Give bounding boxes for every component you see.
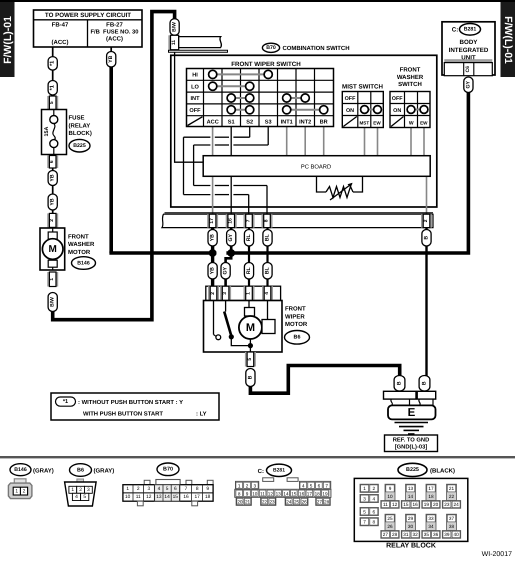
wire mist EW to PC board — [377, 128, 379, 156]
svg-text:37: 37 — [449, 516, 455, 521]
svg-text:B70: B70 — [266, 45, 276, 51]
page label bar left F/W(L)-01 — [0, 2, 15, 77]
svg-text:(GRAY): (GRAY) — [33, 467, 54, 474]
contact LO: ACC to S2 — [209, 82, 254, 90]
pin 16 (combination switch) — [226, 214, 237, 227]
wire label B (ground right) — [419, 376, 430, 392]
front wiper motor connector row — [206, 286, 281, 300]
svg-text:*1: *1 — [50, 61, 56, 66]
svg-text:27: 27 — [383, 532, 389, 537]
svg-text:16: 16 — [228, 218, 234, 224]
legend oval B6 — [70, 464, 92, 477]
wire label *1 — [48, 81, 57, 96]
svg-text:15A: 15A — [44, 126, 50, 136]
svg-text:11: 11 — [171, 40, 177, 45]
separator line — [0, 456, 515, 458]
svg-text:MST: MST — [359, 121, 369, 126]
svg-text:BL: BL — [265, 233, 271, 241]
svg-text:FUSE: FUSE — [69, 115, 85, 122]
svg-text:(ACC): (ACC) — [106, 36, 123, 43]
wire label B (ground left) — [394, 376, 405, 392]
svg-text:EW: EW — [420, 121, 428, 126]
wire label RL (pin7) — [244, 230, 253, 247]
svg-text:5: 5 — [310, 483, 313, 488]
pin 2 (front washer motor) — [47, 213, 58, 227]
contact mist ON: MST to EW — [361, 106, 382, 114]
svg-text:33: 33 — [428, 516, 434, 521]
wire washer EW to PC board — [423, 128, 425, 156]
svg-text:4: 4 — [75, 494, 78, 500]
svg-text:B/W: B/W — [172, 22, 178, 32]
svg-text:9: 9 — [246, 491, 249, 496]
pin 2 (front wiper motor) — [208, 286, 219, 300]
wire S2 column to pin 7 (routed left around PC board) — [184, 127, 250, 216]
ground symbol — [395, 423, 429, 435]
pin 11 (combination switch) — [168, 35, 178, 49]
legend connector B6 (5-pin trapezoid) — [65, 479, 97, 506]
wire FB-47 to fuse to front washer motor (vertical chain) — [52, 47, 54, 229]
wire BR column to PC board — [323, 127, 325, 156]
svg-text:WASHER: WASHER — [68, 241, 95, 248]
svg-text:8: 8 — [264, 219, 270, 222]
svg-text:16: 16 — [412, 502, 418, 507]
svg-text:31: 31 — [403, 532, 409, 537]
svg-text:C:: C: — [258, 468, 264, 475]
svg-text:11: 11 — [260, 491, 265, 496]
svg-text:WITH PUSH BUTTON START: WITH PUSH BUTTON START — [83, 410, 163, 417]
label FUSE (RELAY BLOCK) — [69, 115, 92, 138]
svg-text:OFF: OFF — [345, 96, 356, 102]
svg-text:EW: EW — [373, 121, 381, 126]
front washer switch table — [390, 67, 430, 128]
svg-text:RELAY BLOCK: RELAY BLOCK — [386, 543, 436, 550]
top border line — [0, 0, 515, 2]
svg-text:3: 3 — [363, 496, 366, 501]
label FRONT WASHER MOTOR — [68, 233, 95, 256]
wire label GY (pin16) — [227, 230, 236, 247]
svg-text:2: 2 — [137, 486, 140, 492]
svg-text:26: 26 — [387, 524, 393, 529]
svg-text:WIPER: WIPER — [285, 313, 305, 320]
svg-text:18: 18 — [315, 491, 321, 496]
svg-text:23: 23 — [444, 502, 450, 507]
svg-text:FRONT: FRONT — [285, 306, 306, 313]
wire label RL (motor pin1) — [244, 263, 253, 280]
legend connector B146 (2-pin) — [8, 479, 32, 499]
combination switch box B70 — [171, 55, 437, 207]
svg-text:RL: RL — [246, 233, 252, 241]
contact HI: ACC to S3 — [209, 70, 273, 78]
svg-text:1: 1 — [238, 483, 241, 488]
diagonal in corner cell — [188, 117, 203, 126]
svg-text:25: 25 — [387, 516, 393, 521]
svg-text:ON: ON — [393, 108, 401, 114]
wire label B/W (comb switch pin 11) — [170, 19, 179, 36]
svg-text:FRONT: FRONT — [400, 67, 421, 74]
wire BL pin8 to wiper motor pin 4 — [266, 227, 268, 287]
connector oval B225 — [69, 139, 90, 152]
svg-text:E: E — [408, 407, 416, 419]
svg-text:12: 12 — [392, 502, 398, 507]
legend connector B281 (28-pin) — [235, 478, 331, 506]
svg-text:HI: HI — [192, 73, 198, 79]
wire label B/W (washer motor) — [48, 293, 57, 312]
svg-text:15: 15 — [291, 491, 297, 496]
svg-text:B: B — [397, 381, 403, 385]
svg-text:BL: BL — [265, 266, 271, 274]
svg-text:: WITHOUT PUSH BUTTON START :: : WITHOUT PUSH BUTTON START : Y — [78, 399, 183, 406]
svg-text:21: 21 — [245, 499, 251, 504]
svg-text:18: 18 — [428, 494, 434, 499]
svg-text:6: 6 — [174, 486, 177, 492]
svg-text:26: 26 — [302, 499, 308, 504]
svg-text:11: 11 — [136, 494, 141, 500]
svg-text:29: 29 — [408, 516, 414, 521]
svg-text:10: 10 — [387, 494, 393, 499]
wire label B (wiper motor ground) — [246, 369, 255, 387]
svg-text:FB-27: FB-27 — [106, 22, 123, 29]
svg-text:4: 4 — [302, 483, 305, 488]
svg-text:GY: GY — [465, 80, 471, 88]
svg-text:7: 7 — [246, 219, 252, 222]
pin 17 (combination switch) — [207, 214, 218, 227]
svg-text:MOTOR: MOTOR — [285, 321, 308, 328]
svg-text:14: 14 — [408, 494, 414, 499]
legend connector B70 (18-pin) — [123, 480, 213, 506]
svg-text:ON: ON — [346, 108, 354, 114]
svg-text:7: 7 — [363, 520, 366, 525]
wire YB horizontal to junction (net YB) — [109, 251, 216, 255]
page label bar right F/W(L)-01 — [501, 2, 515, 77]
svg-text:17: 17 — [428, 486, 434, 491]
svg-text:14: 14 — [164, 494, 170, 500]
svg-text:21: 21 — [449, 486, 455, 491]
svg-text:B225: B225 — [73, 143, 86, 149]
contact OFF: S1 to S2 — [227, 106, 254, 114]
svg-text:OFF: OFF — [189, 108, 201, 114]
svg-text:B: B — [422, 381, 428, 385]
svg-text:F/W(L)-01: F/W(L)-01 — [502, 16, 514, 64]
svg-text:2: 2 — [246, 483, 249, 488]
svg-text:2: 2 — [49, 219, 55, 222]
pin 2 (combination switch) — [421, 214, 432, 227]
svg-text:F/B FUSE NO. 30: F/B FUSE NO. 30 — [91, 29, 139, 36]
junction dot YB net — [209, 249, 217, 257]
svg-text:15: 15 — [403, 502, 409, 507]
wire YB pin17 to wiper motor pin 2 — [211, 227, 214, 287]
svg-text:1: 1 — [15, 489, 18, 495]
svg-text:INTEGRATED: INTEGRATED — [449, 47, 489, 54]
wire label GY (motor pin3) — [221, 263, 230, 280]
body integrated unit connector row with pin C6 — [444, 59, 492, 75]
pin 7 (combination switch) — [244, 214, 255, 227]
svg-text:1: 1 — [363, 486, 366, 491]
wire label YB (fuse out) — [48, 171, 57, 186]
fuse 15A (relay block B225) — [42, 110, 67, 155]
svg-text:18: 18 — [205, 494, 211, 500]
svg-text:OFF: OFF — [392, 96, 403, 102]
svg-text:WI-20017: WI-20017 — [482, 551, 512, 558]
svg-text:[GND(L)-03]: [GND(L)-03] — [395, 444, 428, 451]
wire B pin2 down to ground — [425, 227, 427, 376]
svg-text:28: 28 — [324, 499, 330, 504]
ground terminal blocks — [384, 391, 436, 405]
svg-text:BODY: BODY — [460, 39, 479, 46]
wire GY pin16 to wiper motor pin 3 (jog) — [226, 227, 232, 287]
svg-text:B6: B6 — [294, 335, 301, 341]
svg-text:RL: RL — [246, 266, 252, 274]
svg-text:34: 34 — [428, 524, 434, 529]
svg-text:C:: C: — [452, 27, 459, 34]
svg-text:PC BOARD: PC BOARD — [301, 163, 331, 170]
legend oval B281 — [267, 464, 292, 476]
wire INT1 column to PC board — [286, 127, 288, 156]
svg-text:2: 2 — [423, 219, 429, 222]
connector oval B281 — [460, 24, 481, 36]
label BODY INTEGRATED UNIT — [449, 39, 489, 61]
svg-text:7: 7 — [325, 483, 328, 488]
svg-text:12: 12 — [146, 494, 152, 500]
svg-text:B/W: B/W — [50, 297, 56, 307]
wire label BL (pin8) — [263, 230, 272, 247]
svg-text:27: 27 — [317, 499, 323, 504]
legend oval B225 — [398, 463, 427, 476]
svg-text:3: 3 — [253, 483, 256, 488]
svg-text:5: 5 — [363, 509, 366, 514]
wire B wiper motor pin5 to ground E — [250, 366, 399, 394]
wire S1 column to pin 16 (through PC board) — [230, 127, 232, 156]
svg-text:2: 2 — [210, 292, 216, 295]
svg-text:REF. TO GND: REF. TO GND — [393, 437, 430, 444]
combination switch connector bar — [162, 213, 433, 228]
svg-text:FB-47: FB-47 — [52, 22, 69, 29]
svg-text:24: 24 — [286, 499, 292, 504]
svg-text:(RELAY: (RELAY — [69, 122, 91, 129]
contact INT: INT1 to INT2 — [283, 94, 310, 102]
flag connector at combination switch pin 11 — [169, 37, 228, 53]
wire YB from FB-27 down to y253 — [110, 47, 112, 52]
svg-text:B281: B281 — [273, 468, 285, 474]
svg-text:16: 16 — [299, 491, 305, 496]
svg-text:YB: YB — [50, 198, 56, 205]
svg-text:7: 7 — [185, 486, 188, 492]
svg-text:5: 5 — [247, 358, 253, 361]
svg-text:3: 3 — [147, 486, 150, 492]
wire label B (pin2) — [422, 230, 431, 247]
svg-text:INT: INT — [190, 96, 200, 102]
svg-text:LO: LO — [191, 84, 199, 90]
wire INT2 column to PC board — [304, 127, 306, 156]
power supply cell FB-47 (ACC) — [52, 22, 69, 47]
svg-text:MIST SWITCH: MIST SWITCH — [342, 83, 383, 90]
front washer motor B146 — [40, 228, 65, 270]
svg-text:1: 1 — [246, 292, 252, 295]
svg-text:20: 20 — [237, 499, 243, 504]
svg-text:12: 12 — [268, 491, 274, 496]
svg-text:19: 19 — [322, 491, 328, 496]
svg-text:8: 8 — [196, 486, 199, 492]
svg-text:FRONT WIPER SWITCH: FRONT WIPER SWITCH — [231, 61, 301, 68]
wire S3 column to pin 8 (routed left around PC board) — [194, 127, 269, 216]
svg-text:WASHER: WASHER — [397, 74, 424, 81]
svg-text:BR: BR — [320, 119, 328, 125]
svg-text:3: 3 — [87, 487, 90, 493]
svg-text:19: 19 — [424, 502, 430, 507]
svg-text:5: 5 — [49, 101, 55, 104]
contact washer ON: W to EW — [407, 106, 428, 114]
svg-text:14: 14 — [283, 491, 289, 496]
svg-text:13: 13 — [408, 486, 414, 491]
svg-text:F/W(L)-01: F/W(L)-01 — [2, 16, 14, 64]
connector oval B6 — [285, 331, 310, 345]
pin 4 (front wiper motor) — [262, 286, 273, 300]
svg-text:YB: YB — [210, 234, 216, 241]
body integrated unit box C:B281 — [442, 22, 495, 75]
contact OFF: INT1 to BR — [283, 106, 328, 114]
svg-text:B225: B225 — [406, 467, 419, 473]
wiper motor park switch — [214, 301, 251, 346]
svg-text:S2: S2 — [246, 119, 253, 125]
wire label YB (pin17) — [208, 230, 217, 247]
svg-text:6: 6 — [49, 160, 55, 163]
svg-text:11: 11 — [383, 502, 388, 507]
svg-text:10: 10 — [125, 494, 131, 500]
label B70 COMBINATION SWITCH — [262, 43, 349, 52]
pin 1 (front washer motor) — [47, 272, 58, 287]
svg-text:INT2: INT2 — [299, 119, 311, 125]
variable resistor (speed control) under PC board — [317, 176, 363, 200]
svg-text:B: B — [424, 236, 430, 240]
svg-text:4: 4 — [372, 496, 375, 501]
legend oval B70 — [157, 463, 179, 476]
svg-text:2: 2 — [23, 489, 26, 495]
wire RL pin7 to wiper motor pin 1 — [248, 227, 250, 287]
svg-text:ACC: ACC — [207, 119, 219, 125]
svg-text:B: B — [247, 375, 253, 379]
svg-text:6: 6 — [318, 483, 321, 488]
svg-text:B6: B6 — [77, 467, 84, 473]
wire GY from body integrated unit down to y253 (net GY) — [226, 91, 468, 253]
svg-text:6: 6 — [372, 509, 375, 514]
wire PC board to pin 2 — [426, 176, 428, 216]
power supply cell FB-27 F/B FUSE NO. 30 (ACC) — [91, 22, 139, 43]
contact INT: S1 to S2 — [227, 94, 254, 102]
wiper motor M — [239, 301, 275, 353]
svg-text:38: 38 — [449, 524, 455, 529]
svg-text:TO POWER SUPPLY CIRCUIT: TO POWER SUPPLY CIRCUIT — [45, 12, 131, 19]
wire B/W from front washer motor up and over to combination switch pin 11 — [53, 12, 175, 320]
svg-text:(GRAY): (GRAY) — [94, 468, 115, 475]
svg-text:4: 4 — [264, 292, 270, 295]
svg-text:36: 36 — [433, 532, 439, 537]
svg-text:22: 22 — [262, 499, 268, 504]
svg-text:15: 15 — [173, 494, 179, 500]
svg-text:SWITCH: SWITCH — [398, 81, 422, 88]
svg-text:FRONT: FRONT — [68, 233, 89, 240]
pin 3 (front wiper motor) — [220, 286, 231, 300]
wire label BL (motor pin4) — [263, 263, 272, 280]
wire washer W to PC board — [410, 128, 412, 156]
svg-text:*1: *1 — [50, 85, 56, 90]
svg-text:MOTOR: MOTOR — [68, 249, 91, 256]
legend relay block B225 — [354, 478, 468, 541]
svg-text:B146: B146 — [14, 467, 27, 473]
svg-text:28: 28 — [392, 532, 398, 537]
svg-text:W: W — [409, 121, 414, 127]
legend oval B146 — [10, 464, 31, 476]
svg-text:17: 17 — [307, 491, 313, 496]
svg-text:24: 24 — [453, 502, 459, 507]
svg-text:13: 13 — [276, 491, 282, 496]
svg-text:1: 1 — [71, 487, 74, 493]
svg-text:YB: YB — [50, 174, 56, 181]
svg-text:25: 25 — [294, 499, 300, 504]
svg-text:9: 9 — [389, 486, 392, 491]
power supply box TO POWER SUPPLY CIRCUIT — [34, 10, 143, 47]
connector oval B146 — [72, 257, 96, 270]
svg-text:4: 4 — [158, 486, 161, 492]
svg-text:M: M — [246, 322, 255, 334]
svg-text:20: 20 — [433, 502, 439, 507]
svg-text:2: 2 — [372, 486, 375, 491]
svg-text:C6: C6 — [465, 66, 471, 73]
svg-text:13: 13 — [156, 494, 162, 500]
mist switch table — [342, 83, 383, 127]
wire label GY (body integrated unit C6) — [464, 77, 473, 93]
svg-text:(ACC): (ACC) — [52, 39, 69, 46]
PC board — [203, 156, 430, 177]
svg-text:GY: GY — [223, 266, 229, 274]
svg-text:(BLACK): (BLACK) — [430, 468, 455, 475]
note box REF. TO GND [GND(L)-03] — [385, 435, 438, 452]
svg-text:B146: B146 — [77, 260, 90, 266]
svg-text:5: 5 — [83, 494, 86, 500]
svg-text:32: 32 — [412, 532, 418, 537]
pin 1 (front wiper motor) — [244, 286, 255, 300]
svg-text:35: 35 — [424, 532, 430, 537]
wire label *1 (FB-47) — [48, 57, 57, 71]
svg-text:COMBINATION SWITCH: COMBINATION SWITCH — [283, 45, 350, 52]
svg-text:30: 30 — [408, 524, 414, 529]
pin 6 (relay block fuse) — [47, 156, 58, 169]
front wiper motor box B6 — [204, 301, 283, 353]
svg-text:B281: B281 — [464, 27, 477, 33]
svg-text:39: 39 — [444, 532, 450, 537]
junction dot GY net — [227, 249, 235, 257]
svg-text:YB: YB — [210, 267, 216, 274]
pin 5 (relay block fuse) — [47, 96, 58, 110]
pin 8 (combination switch) — [262, 214, 273, 227]
svg-text:3: 3 — [222, 292, 228, 295]
svg-text:16: 16 — [183, 494, 189, 500]
svg-text:8: 8 — [372, 520, 375, 525]
svg-text:S3: S3 — [265, 119, 272, 125]
svg-text:23: 23 — [269, 499, 275, 504]
svg-text:S1: S1 — [228, 119, 235, 125]
svg-text:YB: YB — [108, 55, 114, 62]
pin 5 (front wiper motor) — [245, 352, 256, 367]
wire label YB (motor pin2) — [208, 263, 217, 280]
svg-text:17: 17 — [195, 494, 201, 500]
svg-text:B70: B70 — [163, 467, 173, 473]
svg-text:1: 1 — [126, 486, 129, 492]
svg-text:: LY: : LY — [196, 410, 207, 417]
wire label YB (washer motor) — [48, 194, 57, 210]
wire ACC column to pin 17 (through PC board) — [212, 127, 214, 156]
svg-text:10: 10 — [252, 491, 258, 496]
wire label YB (FB-27) — [107, 52, 116, 68]
svg-text:1: 1 — [49, 278, 55, 281]
